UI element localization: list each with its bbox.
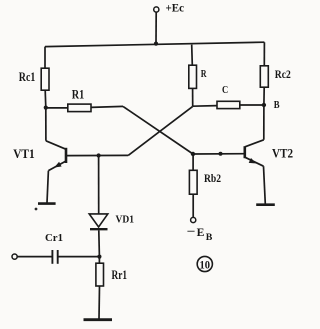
wire: node down to VD1 — [98, 156, 100, 214]
resistor R1 — [68, 104, 91, 112]
resistor Rr1 — [96, 263, 104, 286]
resistor Rc1 — [41, 68, 49, 90]
wire: VT2 emitter down — [264, 166, 266, 204]
svg-text:Rr1: Rr1 — [112, 267, 128, 282]
node: base junction dot — [191, 152, 195, 156]
figure number 10 (circled) — [197, 256, 212, 271]
wire: VT2 collector diagonal — [245, 140, 264, 147]
wire: +Ec down to bus — [155, 12, 157, 43]
wire: C to node B — [240, 104, 264, 106]
wire: bus to R — [191, 45, 194, 65]
svg-text:B: B — [274, 99, 280, 111]
capacitor Cr1 — [52, 250, 57, 264]
resistor Rc2 — [260, 66, 268, 87]
svg-text:VD1: VD1 — [116, 215, 135, 226]
wire: VT2 base line — [193, 153, 245, 155]
svg-text:Cr1: Cr1 — [45, 232, 63, 244]
terminal: trigger input — [12, 254, 17, 259]
wire: Rb2 to terminal — [192, 194, 194, 217]
svg-text:+Ec: +Ec — [166, 3, 185, 15]
node: VT1 base / VD1 junction — [97, 153, 101, 157]
wire: VT1 emitter down — [47, 171, 48, 203]
resistor Rb2 — [189, 170, 197, 194]
wire: node to C — [193, 105, 217, 108]
svg-text:R1: R1 — [72, 87, 85, 102]
wire: Rr1 to ground — [98, 286, 101, 319]
wire: VT1 collector vertical — [45, 108, 47, 141]
svg-text:VT1: VT1 — [13, 146, 35, 161]
svg-text:R: R — [201, 68, 208, 80]
svg-text:10: 10 — [200, 257, 211, 271]
wire: node to Rb2 — [192, 154, 194, 170]
wire: bus to Rc2 — [263, 42, 265, 66]
wire: node to Rr1 — [98, 257, 100, 264]
transistor VT2 — [245, 146, 264, 166]
capacitor C — [217, 101, 240, 108]
svg-text:VT2: VT2 — [272, 146, 293, 161]
ground (Rr1) — [84, 318, 113, 321]
wire: Rc1 bottom to node — [44, 90, 47, 107]
node: Rc1/R1/VT1 collector junction — [44, 106, 48, 110]
wire: R1 right lead — [91, 106, 123, 107]
label -EB — [187, 225, 213, 243]
svg-text:Rc2: Rc2 — [275, 69, 291, 81]
resistor R — [189, 65, 197, 88]
diode VD1 — [89, 214, 108, 229]
wire: VT1 base line — [66, 154, 128, 156]
wire: Rc2 bottom to node B — [263, 87, 265, 105]
wire: cross-coupling diagonal VT1 base to R/C node — [128, 106, 193, 155]
terminal +Ec — [154, 7, 159, 12]
wire: node B down to VT2 collector — [263, 105, 265, 140]
wire: input to Cr1 — [17, 256, 52, 258]
wire: R bottom to node — [192, 88, 194, 106]
node: dot on VT2 base line — [219, 152, 223, 156]
wire: top supply bus — [45, 42, 264, 46]
node: Cr1/VD1/Rr1 junction — [97, 255, 101, 259]
svg-text:Rc1: Rc1 — [19, 69, 36, 84]
svg-text:E: E — [197, 225, 205, 239]
svg-text:Rb2: Rb2 — [204, 171, 221, 185]
svg-text:C: C — [222, 84, 228, 96]
wire: bus to Rc1 — [44, 47, 46, 69]
stray scan dot — [35, 208, 38, 211]
ground (VT1 emitter) — [38, 202, 56, 205]
wire: cross-coupling diagonal R1 to VT2 base — [123, 106, 193, 154]
svg-text:B: B — [206, 233, 213, 243]
ground (VT2 emitter) — [256, 203, 275, 206]
node: junction dot at +Ec/bus — [154, 42, 158, 46]
wire: node to R1 — [46, 107, 68, 109]
transistor VT1 — [48, 148, 66, 171]
node B junction dot — [262, 103, 266, 107]
terminal -EB — [191, 217, 196, 222]
wire: Cr1 to node — [58, 256, 100, 258]
wire: VT1 collector diagonal — [46, 141, 66, 149]
wire: VD1 to Cr1/Rr1 node — [98, 230, 101, 256]
